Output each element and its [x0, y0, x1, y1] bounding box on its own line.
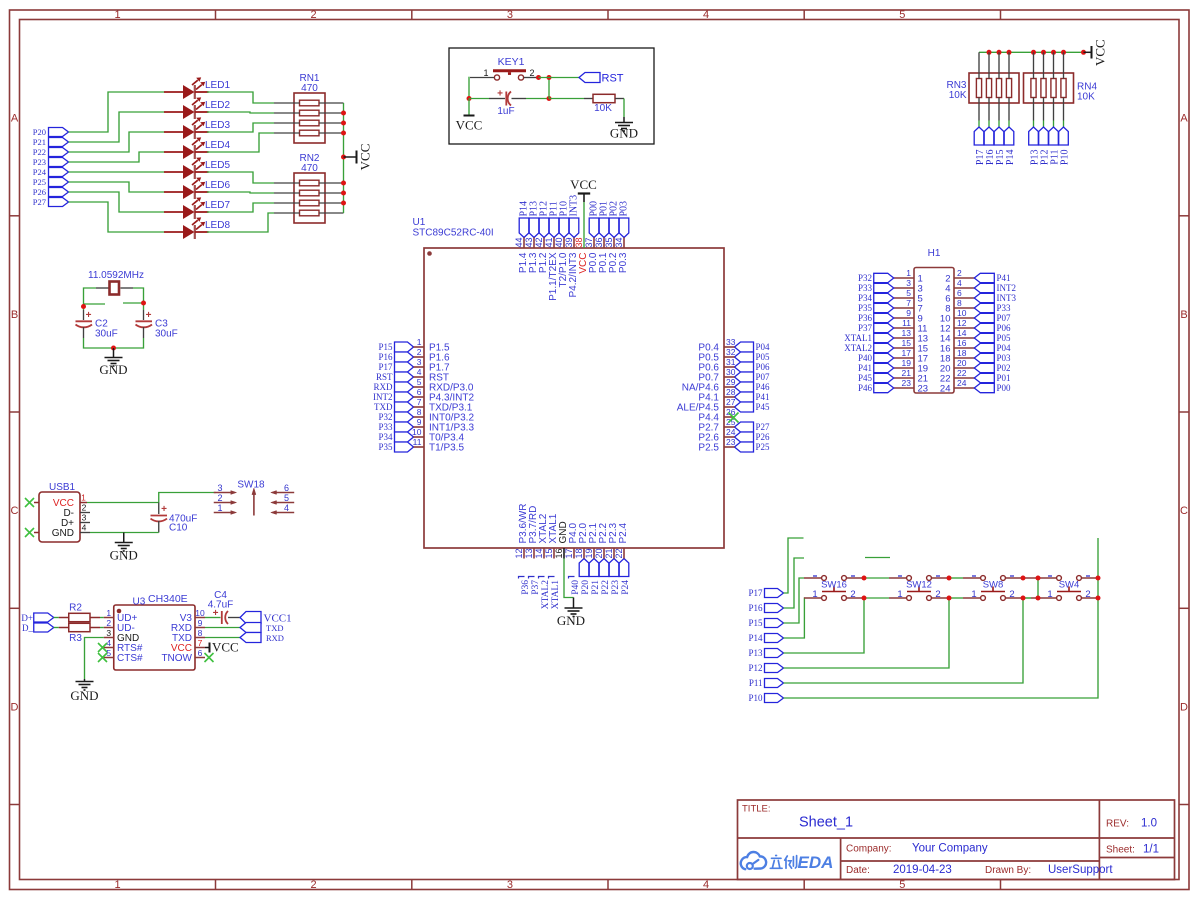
LED LED1	[164, 77, 209, 99]
svg-text:TNOW: TNOW	[161, 653, 192, 664]
svg-text:SW12: SW12	[906, 580, 932, 591]
svg-text:11: 11	[902, 318, 911, 328]
U1 right connector stack lower	[735, 422, 754, 452]
wire VCC node to capacitor C1	[469, 98, 489, 100]
H1 pin 10	[954, 317, 975, 319]
connector INT2 (H1 right)	[974, 283, 994, 292]
svg-text:P22: P22	[601, 580, 611, 595]
svg-text:P37: P37	[531, 580, 541, 595]
svg-text:13: 13	[902, 328, 912, 338]
svg-text:D_: D_	[22, 623, 33, 633]
svg-text:9: 9	[906, 308, 911, 318]
svg-text:U1: U1	[413, 217, 426, 228]
RN2 element 2	[300, 190, 320, 196]
svg-text:5: 5	[899, 9, 905, 21]
wire to connector P12	[1043, 121, 1045, 128]
H1 pin 4	[954, 287, 975, 289]
connector P16 (key matrix)	[765, 604, 784, 613]
svg-text:P16: P16	[378, 352, 393, 362]
svg-text:SW16: SW16	[821, 580, 847, 591]
no-connect X TNOW	[205, 653, 214, 662]
junction dot VCC bus	[341, 191, 346, 196]
RN1 pin left 4	[274, 132, 300, 134]
svg-text:21: 21	[902, 368, 912, 378]
svg-text:+: +	[86, 310, 92, 321]
svg-text:P25: P25	[756, 442, 771, 452]
U1 pin 44	[523, 238, 525, 249]
RN pin bottom 7	[1053, 98, 1055, 121]
RN pin top 5	[1033, 52, 1035, 78]
wire USB1 GND bus	[90, 532, 159, 534]
junction dot SW4 bottom	[1096, 596, 1101, 601]
svg-text:28: 28	[726, 387, 736, 397]
RN element 7	[1051, 79, 1056, 98]
svg-text:P36: P36	[858, 313, 873, 323]
wire P24 to LED5	[69, 171, 165, 173]
connector P02 (H1 right)	[974, 363, 994, 372]
no-connect X CTS#	[98, 653, 107, 662]
frame row tick right	[1179, 411, 1189, 413]
svg-text:RST: RST	[376, 372, 393, 382]
svg-text:INT3: INT3	[997, 293, 1017, 303]
connector P15	[994, 127, 1004, 145]
connector P21	[49, 138, 69, 147]
svg-text:P02: P02	[997, 363, 1011, 373]
svg-text:Your Company: Your Company	[912, 843, 988, 855]
svg-text:6: 6	[284, 483, 289, 493]
svg-text:P36: P36	[521, 580, 531, 595]
connector P34 (H1 left)	[874, 293, 894, 302]
frame column tick top	[215, 10, 217, 20]
junction dot right	[141, 301, 146, 306]
U1 pin 19	[593, 548, 595, 559]
LED LED6	[164, 177, 209, 199]
connector TXD	[240, 623, 261, 633]
U1 pin 4	[414, 376, 425, 378]
connector P25	[49, 178, 69, 187]
connector P11 (key matrix)	[765, 679, 784, 688]
USB connector USB1	[39, 492, 80, 542]
U3 pin 6 right	[195, 657, 205, 659]
svg-text:P20: P20	[33, 127, 46, 137]
H1 pin 15	[894, 347, 914, 349]
junction dot SW8 bottom	[1021, 596, 1026, 601]
svg-text:P40: P40	[571, 580, 581, 595]
junction dot SW4 top	[1096, 576, 1101, 581]
svg-text:15: 15	[544, 548, 554, 558]
connector P07 (H1 right)	[974, 313, 994, 322]
RN2 pin left 2	[274, 192, 300, 194]
power flag VCC (RN bus)	[1084, 39, 1108, 66]
svg-text:P41: P41	[858, 363, 872, 373]
RN1 element 1	[300, 100, 320, 106]
RN1 pin left 3	[274, 122, 300, 124]
frame column tick bottom	[215, 880, 217, 890]
wire SW12 to SW8 bottom	[949, 597, 963, 599]
wire P12 to SW12 column	[784, 598, 950, 668]
svg-text:4.7uF: 4.7uF	[208, 600, 234, 611]
ground GND (U1)	[557, 598, 585, 629]
wire resistor to ground	[623, 99, 625, 118]
connector P33 (H1 right)	[974, 303, 994, 312]
wire crystal loop right	[133, 288, 144, 310]
svg-text:3: 3	[507, 9, 513, 21]
svg-text:22: 22	[614, 548, 624, 558]
wire SW12 to SW8 top	[949, 577, 963, 579]
U1 pin 41	[553, 238, 555, 249]
svg-text:P2.4: P2.4	[618, 522, 629, 543]
U1 pin 6	[414, 396, 425, 398]
junction dot VCC bus	[341, 201, 346, 206]
RN pin top 3	[998, 52, 1000, 78]
svg-text:27: 27	[726, 397, 736, 407]
connector P17	[974, 127, 984, 145]
junction dot RN bus	[1051, 50, 1056, 55]
wire LED4 to RN pin	[207, 133, 274, 152]
wire crystal bottom	[84, 338, 144, 348]
RN pin top 6	[1043, 52, 1045, 78]
svg-text:5: 5	[906, 288, 911, 298]
RN element 1	[976, 79, 981, 98]
U1 pin 31	[724, 366, 735, 368]
svg-text:P26: P26	[756, 432, 771, 442]
frame row tick left	[10, 804, 20, 806]
connector P05 (H1 right)	[974, 333, 994, 342]
svg-text:5: 5	[899, 879, 905, 891]
U3 pin 4 left	[104, 647, 114, 649]
svg-text:C: C	[1180, 505, 1188, 517]
connector P13	[1029, 127, 1039, 145]
wire LED8 to RN pin	[207, 213, 274, 232]
svg-text:XTAL1: XTAL1	[844, 333, 872, 343]
U1 pin1 marker dot	[427, 251, 432, 256]
U1 pin 43	[533, 238, 535, 249]
junction dot SW12 bottom	[947, 596, 952, 601]
svg-text:7: 7	[906, 298, 911, 308]
svg-text:GND: GND	[610, 126, 638, 141]
svg-text:14: 14	[534, 548, 544, 558]
H1 pin 21	[894, 377, 914, 379]
H1 pin 5	[894, 297, 914, 299]
wire to connector P11	[1053, 121, 1055, 128]
svg-text:INT2: INT2	[373, 392, 393, 402]
U1 pin 24	[724, 436, 735, 438]
U1 pin 7	[414, 406, 425, 408]
U1 pin 28	[724, 396, 735, 398]
svg-text:3: 3	[906, 278, 911, 288]
svg-text:3: 3	[417, 357, 422, 367]
svg-text:1: 1	[217, 503, 222, 513]
net label P37 (flag)	[529, 577, 541, 595]
svg-text:P24: P24	[33, 167, 47, 177]
wire P17 bus	[784, 538, 804, 593]
svg-text:470: 470	[301, 83, 318, 94]
svg-text:4: 4	[106, 638, 111, 648]
switch SW4	[1039, 576, 1099, 601]
svg-text:VCC: VCC	[212, 640, 239, 655]
wire P10 to SW4 column	[784, 598, 1099, 698]
svg-text:INT3: INT3	[569, 195, 580, 217]
svg-text:30uF: 30uF	[95, 329, 118, 340]
wire P21 to LED2	[69, 112, 165, 142]
switch SW16	[804, 576, 864, 601]
SW18 lever	[252, 488, 256, 516]
connector P00 (H1 right)	[974, 383, 994, 392]
RN2 pin right 2	[319, 192, 344, 194]
RN pin bottom 3	[998, 98, 1000, 121]
connector P22	[49, 148, 69, 157]
wire SW16 to SW12 bottom	[864, 597, 889, 599]
switch SW8	[963, 576, 1023, 601]
svg-text:P33: P33	[378, 422, 393, 432]
svg-text:P25: P25	[33, 177, 46, 187]
U1 pin 36	[603, 238, 605, 249]
connector P12 (key matrix)	[765, 664, 784, 673]
svg-text:1: 1	[81, 493, 86, 503]
connector P27	[49, 198, 69, 207]
wire P13 to SW16 column	[784, 598, 865, 653]
svg-text:41: 41	[544, 237, 554, 247]
svg-text:USB1: USB1	[49, 482, 76, 493]
ground GND (U3 block)	[70, 679, 98, 703]
connector P15 (key matrix)	[765, 619, 784, 628]
LED LED4	[164, 137, 209, 159]
wire LED6 to RN pin	[207, 192, 274, 193]
junction dot SW12 top	[947, 576, 952, 581]
junction dot RN bus	[1031, 50, 1036, 55]
svg-text:2: 2	[417, 347, 422, 357]
svg-text:2: 2	[850, 589, 855, 600]
H1 pin 2	[954, 277, 975, 279]
LED LED3	[164, 117, 209, 139]
resistor network RN3 body	[969, 73, 1019, 103]
junction dot at KEY1 pin2	[536, 75, 541, 80]
U1 pin 27	[724, 406, 735, 408]
svg-text:1: 1	[114, 9, 120, 21]
U1 pin 20	[603, 548, 605, 559]
connector D+	[34, 613, 54, 622]
svg-text:11.0592MHz: 11.0592MHz	[88, 270, 144, 281]
U1 pin 23	[724, 446, 735, 448]
svg-text:LED1: LED1	[205, 80, 230, 91]
svg-text:P15: P15	[748, 618, 763, 628]
RN element 5	[1031, 79, 1036, 98]
H1 pin 9	[894, 317, 914, 319]
frame column tick top	[607, 10, 609, 20]
svg-text:TITLE:: TITLE:	[742, 804, 771, 815]
RN pin top 7	[1053, 52, 1055, 78]
svg-text:GND: GND	[557, 613, 585, 628]
svg-text:P0.3: P0.3	[618, 252, 629, 273]
junction dot RN bus	[1007, 50, 1012, 55]
resistor network RN2	[294, 173, 325, 223]
svg-text:38: 38	[574, 237, 584, 247]
svg-text:1/1: 1/1	[1143, 844, 1159, 856]
svg-text:CTS#: CTS#	[117, 653, 143, 664]
svg-text:Sheet:: Sheet:	[1106, 845, 1135, 856]
svg-text:GND: GND	[110, 548, 138, 563]
resistor R2	[59, 613, 100, 621]
connector RST	[579, 73, 600, 83]
wire P25 to LED6	[69, 182, 165, 192]
svg-text:7: 7	[198, 638, 203, 648]
svg-text:P16: P16	[748, 603, 763, 613]
U1 pin 8	[414, 416, 425, 418]
net label XTAL1 (flag)	[549, 577, 561, 610]
svg-text:LED7: LED7	[205, 200, 230, 211]
wire junction to resistor R1	[549, 98, 584, 100]
U1 pin 9	[414, 426, 425, 428]
U1 pin 40	[563, 238, 565, 249]
switch SW12	[889, 576, 949, 601]
connector P14 (key matrix)	[765, 634, 784, 643]
svg-text:P14: P14	[1005, 150, 1016, 166]
H1 pin 11	[894, 327, 914, 329]
frame row tick left	[10, 411, 20, 413]
svg-text:1: 1	[417, 337, 422, 347]
svg-text:5: 5	[106, 648, 111, 658]
svg-text:10: 10	[195, 608, 205, 618]
svg-text:4: 4	[417, 367, 422, 377]
wire D_ to R3	[54, 627, 59, 629]
svg-text:VCC: VCC	[1093, 39, 1108, 66]
net label P40 (flag)	[569, 577, 581, 595]
SW8 top pin number marks	[972, 575, 1014, 577]
RN element 4	[1006, 79, 1011, 98]
resistor R1 10K	[584, 94, 624, 102]
H1 pin 14	[954, 337, 975, 339]
no-connect X RTS#	[98, 643, 107, 652]
RN1 pin right 1	[319, 102, 344, 104]
svg-text:30uF: 30uF	[155, 329, 178, 340]
U1 pin 1	[414, 346, 425, 348]
svg-text:P41: P41	[997, 273, 1011, 283]
frame row tick right	[1179, 215, 1189, 217]
RN2 pin left 3	[274, 202, 300, 204]
no-connect X lower	[25, 528, 34, 537]
svg-text:11: 11	[413, 437, 422, 447]
USB1 pin 3	[80, 522, 90, 524]
svg-text:H1: H1	[928, 248, 941, 259]
svg-text:LED4: LED4	[205, 140, 230, 151]
RN pin bottom 5	[1033, 98, 1035, 121]
junction dot RST node	[547, 75, 552, 80]
svg-text:470: 470	[301, 163, 318, 174]
svg-text:10: 10	[957, 308, 967, 318]
svg-text:P05: P05	[756, 352, 771, 362]
svg-text:P06: P06	[997, 323, 1012, 333]
H1 pin 19	[894, 367, 914, 369]
svg-text:17: 17	[902, 348, 912, 358]
RN1 element 4	[300, 130, 320, 136]
svg-text:6: 6	[957, 288, 962, 298]
svg-text:SW4: SW4	[1059, 580, 1080, 591]
svg-text:9: 9	[417, 417, 422, 427]
wire RST node to connector	[539, 77, 580, 79]
junction dot bottom	[111, 346, 116, 351]
svg-text:+: +	[497, 89, 503, 100]
svg-text:T1/P3.5: T1/P3.5	[429, 443, 464, 454]
svg-text:4: 4	[703, 879, 709, 891]
svg-text:24: 24	[940, 384, 951, 395]
svg-text:B: B	[11, 309, 18, 321]
svg-text:2: 2	[311, 9, 317, 21]
capacitor C10 470uF	[151, 503, 168, 533]
wire U1 GND pin16	[564, 548, 574, 598]
push button KEY1	[470, 71, 539, 80]
svg-text:P04: P04	[756, 342, 771, 352]
svg-text:12: 12	[514, 548, 524, 558]
resistor R3	[59, 623, 100, 631]
connector P32 (H1 left)	[874, 273, 894, 282]
frame row tick left	[10, 607, 20, 609]
svg-text:P26: P26	[33, 187, 46, 197]
USB1 shell pin lower	[34, 532, 39, 534]
RN pin bottom 1	[978, 98, 980, 121]
svg-text:Company:: Company:	[846, 844, 892, 855]
svg-text:P45: P45	[756, 402, 771, 412]
svg-text:P07: P07	[997, 313, 1012, 323]
H1 pin 13	[894, 337, 914, 339]
frame row tick right	[1179, 804, 1189, 806]
U1 pin 29	[724, 386, 735, 388]
U3 pin 7 right	[195, 647, 205, 649]
svg-text:1: 1	[971, 589, 976, 600]
svg-text:34: 34	[614, 237, 624, 247]
svg-text:23: 23	[918, 384, 929, 395]
connector P41 (H1 right)	[974, 273, 994, 282]
svg-text:2: 2	[82, 503, 87, 513]
U1 pin 12	[523, 548, 525, 559]
svg-text:LED5: LED5	[205, 160, 230, 171]
connector P10	[1059, 127, 1069, 145]
svg-text:10: 10	[412, 427, 422, 437]
connector INT3 (H1 right)	[974, 293, 994, 302]
wire P20 to LED1	[69, 92, 165, 132]
svg-text:P17: P17	[748, 588, 763, 598]
ground GND (USB block)	[110, 533, 138, 563]
U1 pin 10	[414, 436, 425, 438]
wire D+ to R2	[54, 617, 59, 619]
U1 pin 3	[414, 366, 425, 368]
svg-text:XTAL1: XTAL1	[551, 580, 561, 610]
reset circuit enclosure box	[449, 48, 654, 144]
U1 pin 26	[724, 416, 735, 418]
wire to connector P14	[1008, 121, 1010, 128]
svg-text:P33: P33	[858, 283, 873, 293]
svg-text:RXD: RXD	[373, 382, 393, 392]
wire XTAL stub right	[123, 302, 144, 304]
H1 pin 6	[954, 297, 975, 299]
junction dot SW8 top	[1021, 576, 1026, 581]
svg-text:5: 5	[284, 493, 289, 503]
title block outline	[738, 800, 1175, 880]
SW4 top pin number marks	[1048, 575, 1090, 577]
USB1 pin 2	[80, 512, 90, 514]
RN2 pin left 4	[274, 212, 300, 214]
svg-text:GND: GND	[52, 528, 74, 539]
RN element 6	[1041, 79, 1046, 98]
svg-text:P33: P33	[997, 303, 1012, 313]
svg-text:43: 43	[524, 237, 534, 247]
wire U3 GND	[85, 638, 104, 680]
wire jumper to SW4 top	[1038, 577, 1039, 579]
svg-text:REV:: REV:	[1106, 819, 1129, 830]
wire U3 RXD to TXD flag	[205, 627, 240, 629]
SW18 left pin 2	[214, 501, 237, 505]
svg-text:EDA: EDA	[798, 853, 834, 872]
svg-text:33: 33	[726, 337, 736, 347]
